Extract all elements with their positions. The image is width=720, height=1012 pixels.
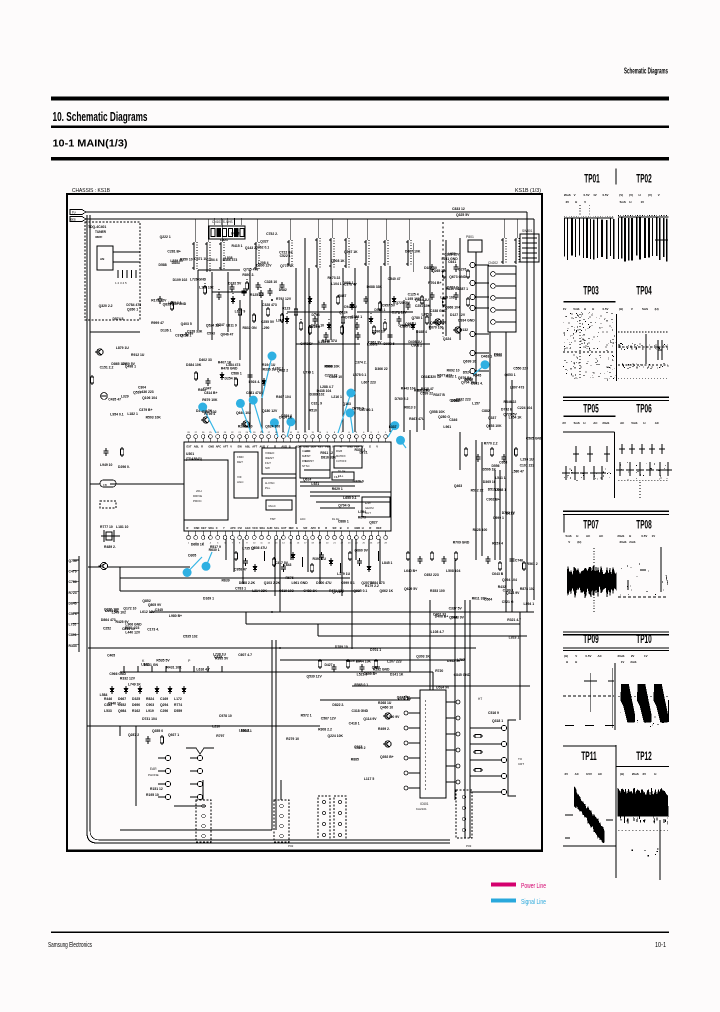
svg-text:H: H xyxy=(629,534,631,538)
capacitor C69 xyxy=(217,292,222,300)
svg-text:C176 12V: C176 12V xyxy=(392,310,408,314)
svg-text:FMD: FMD xyxy=(237,455,244,459)
svg-text:C354 4: C354 4 xyxy=(207,258,218,262)
svg-text:Q614: Q614 xyxy=(303,478,311,482)
svg-text:L239 GND: L239 GND xyxy=(170,302,187,306)
svg-text:H: H xyxy=(576,534,578,538)
svg-text:R673 22: R673 22 xyxy=(327,276,340,280)
svg-text:C482 1K: C482 1K xyxy=(303,589,317,593)
svg-text:DL 1H: DL 1H xyxy=(338,469,345,473)
wire signal vertical xyxy=(308,268,310,430)
label scope settings xyxy=(619,193,659,197)
test point leader wire xyxy=(338,393,351,433)
svg-text:VCO: VCO xyxy=(252,526,258,530)
svg-text:C409 10: C409 10 xyxy=(329,375,342,379)
svg-text:C565 GND: C565 GND xyxy=(526,436,543,440)
svg-text:R431 10K: R431 10K xyxy=(166,666,182,670)
svg-text:C786: C786 xyxy=(69,580,77,584)
IC internal rule b xyxy=(316,501,391,503)
label scope settings xyxy=(563,307,609,311)
waveform TP02 pulse train xyxy=(618,217,669,262)
svg-text:R321 4.7: R321 4.7 xyxy=(507,618,521,622)
svg-text:C978 10: C978 10 xyxy=(219,714,232,718)
IC U301 pin numbers top xyxy=(187,432,387,434)
svg-text:R308 2.2: R308 2.2 xyxy=(318,727,332,731)
svg-text:D515 2: D515 2 xyxy=(488,487,499,491)
svg-text:C255 5V: C255 5V xyxy=(261,320,275,324)
test point marker TP08 xyxy=(286,417,295,426)
svg-text:(V): (V) xyxy=(619,193,623,197)
waveform TP05 corner trace xyxy=(563,432,615,498)
svg-text:PHONE: PHONE xyxy=(148,773,159,777)
wire bias xyxy=(110,483,184,485)
svg-text:TP07: TP07 xyxy=(583,518,599,532)
IC internal block RGB xyxy=(334,446,362,468)
test point leader wire xyxy=(401,440,407,448)
svg-text:R467 104: R467 104 xyxy=(276,395,291,399)
svg-text:H: H xyxy=(575,660,577,664)
rule under TP12 xyxy=(617,765,669,767)
coil L110 xyxy=(501,238,506,264)
svg-text:D132: D132 xyxy=(460,328,468,332)
capacitor C26 xyxy=(243,558,248,566)
svg-text:Q318 1: Q318 1 xyxy=(492,719,503,723)
wire tall V3 xyxy=(409,430,411,672)
svg-text:Q327: Q327 xyxy=(260,239,268,243)
capacitor C35 xyxy=(357,558,362,566)
svg-text:R489 2.: R489 2. xyxy=(104,545,116,549)
svg-text:L807 473: L807 473 xyxy=(510,386,524,390)
svg-text:Q935 0.1: Q935 0.1 xyxy=(353,589,367,593)
test point marker TP07 xyxy=(270,418,279,427)
svg-text:R911 12: R911 12 xyxy=(320,451,333,455)
rule below TP11 xyxy=(563,845,616,847)
svg-text:C374 2.: C374 2. xyxy=(355,361,367,365)
svg-text:D816 33K: D816 33K xyxy=(321,455,337,459)
svg-text:L181 10: L181 10 xyxy=(116,525,129,529)
svg-text:AGC: AGC xyxy=(245,526,251,530)
svg-text:TP12: TP12 xyxy=(636,749,652,763)
svg-text:PROC: PROC xyxy=(193,499,203,503)
svg-text:P801: P801 xyxy=(466,235,474,239)
wire sw ticks xyxy=(124,666,222,672)
svg-text:R846 22: R846 22 xyxy=(504,400,517,404)
svg-text:V: V xyxy=(631,307,633,311)
resistor R71 xyxy=(245,281,248,291)
wire IC pin down xyxy=(307,539,309,572)
svg-text:Q988 1: Q988 1 xyxy=(342,281,353,285)
capacitor C5 xyxy=(280,282,285,290)
wire signal vertical xyxy=(380,266,382,340)
ground loop wire inner xyxy=(90,215,450,840)
svg-text:AN: AN xyxy=(100,257,104,261)
resistor R58 xyxy=(378,301,381,311)
transistor Q601 xyxy=(383,713,391,719)
capacitor C23 xyxy=(248,372,253,380)
transistor Q401 xyxy=(433,319,441,325)
transistor Q303 xyxy=(98,562,107,569)
svg-text:SDA: SDA xyxy=(311,445,317,449)
svg-text:C917: C917 xyxy=(354,745,362,749)
test point marker TP06 xyxy=(249,396,258,405)
svg-text:R839: R839 xyxy=(221,578,229,582)
capacitor C85 xyxy=(332,664,337,672)
wire signal vertical xyxy=(511,380,513,612)
svg-text:SW801: SW801 xyxy=(522,229,533,233)
svg-text:2FH: 2FH xyxy=(196,489,202,493)
svg-text:D370 9: D370 9 xyxy=(353,480,364,484)
wire IC pin down xyxy=(341,539,343,596)
waveform TP05 pulses xyxy=(562,446,611,481)
svg-text:L117 5: L117 5 xyxy=(364,777,374,781)
svg-text:0.5V: 0.5V xyxy=(641,534,647,538)
diode D56 xyxy=(350,302,354,310)
svg-text:R425 9V: R425 9V xyxy=(115,620,129,624)
tuner TU101 dashed box xyxy=(85,222,140,320)
rule under TP09 a xyxy=(563,647,669,649)
svg-text:D574 5: D574 5 xyxy=(112,317,123,321)
svg-text:C321 9: C321 9 xyxy=(311,402,322,406)
svg-text:Q852: Q852 xyxy=(142,599,150,603)
resistor R74 xyxy=(299,321,302,331)
resistor R6 xyxy=(238,307,241,317)
capacitor C4 xyxy=(268,288,273,296)
transistor Q101 xyxy=(95,349,103,355)
svg-text:L104 1: L104 1 xyxy=(331,282,342,286)
coil L103 xyxy=(219,242,224,270)
wire signal vertical xyxy=(249,270,251,432)
wire coil feed xyxy=(221,219,223,242)
svg-text:V: V xyxy=(568,540,570,544)
wire signal vertical xyxy=(429,240,431,330)
waveform TP01 pulse train xyxy=(564,218,615,260)
wire stub xyxy=(378,551,380,561)
wire tall V5 xyxy=(469,600,471,838)
svg-text:Q163: Q163 xyxy=(343,402,351,406)
svg-text:C318 GND: C318 GND xyxy=(352,709,369,713)
svg-text:C151 2.2: C151 2.2 xyxy=(100,366,114,370)
svg-text:P02: P02 xyxy=(288,844,294,848)
svg-text:VIF: VIF xyxy=(237,475,242,479)
test point marker TP11 xyxy=(390,421,399,430)
svg-text:C607 4.7: C607 4.7 xyxy=(238,653,252,657)
svg-text:L580 47: L580 47 xyxy=(512,469,525,473)
svg-text:Q774 1K: Q774 1K xyxy=(280,264,294,268)
diode D47 xyxy=(182,686,186,694)
capacitor C81 xyxy=(397,316,402,324)
svg-text:R269 100: R269 100 xyxy=(238,424,253,428)
waveform TP04 video lines xyxy=(618,332,668,378)
IC IC601 left pins xyxy=(404,696,420,790)
wire link xyxy=(287,311,343,313)
svg-text:Q778 1: Q778 1 xyxy=(332,590,343,594)
svg-text:Q709 1: Q709 1 xyxy=(180,334,191,338)
svg-text:EW: EW xyxy=(238,445,243,449)
connector CN804 xyxy=(456,790,472,838)
wire link xyxy=(296,343,360,345)
fuse FB301 xyxy=(100,480,116,487)
svg-text:Q463: Q463 xyxy=(454,484,462,488)
wire vertical xyxy=(481,442,483,556)
svg-text:D188 4: D188 4 xyxy=(416,330,427,334)
svg-text:L961 GND: L961 GND xyxy=(291,581,308,585)
svg-text:D365 10: D365 10 xyxy=(483,480,496,484)
resistor R66 xyxy=(372,325,375,335)
wire tall V4 xyxy=(464,600,466,838)
svg-text:RGB: RGB xyxy=(336,449,342,453)
svg-text:C886 1: C886 1 xyxy=(338,520,349,524)
svg-text:L953: L953 xyxy=(494,354,502,358)
svg-text:D305: D305 xyxy=(188,553,196,557)
svg-text:C903: C903 xyxy=(146,703,154,707)
svg-text:(H): (H) xyxy=(577,540,581,544)
wire IC pin down xyxy=(290,539,292,560)
svg-text:Samsung Electronics: Samsung Electronics xyxy=(48,940,92,949)
svg-text:R676: R676 xyxy=(285,576,293,580)
svg-text:TP02: TP02 xyxy=(636,172,652,186)
svg-text:R478 GND: R478 GND xyxy=(221,367,238,371)
capacitor C78 xyxy=(355,322,360,330)
svg-text:Q827: Q827 xyxy=(369,520,377,524)
wire fuse to loop xyxy=(90,483,100,485)
label scope settings xyxy=(619,307,659,311)
svg-text:C957 5V: C957 5V xyxy=(382,303,396,307)
label scope settings xyxy=(620,540,636,544)
wire signal vertical xyxy=(211,272,213,340)
wire IC long down 1 xyxy=(279,539,281,612)
svg-text:L182 1: L182 1 xyxy=(127,412,138,416)
svg-text:R885: R885 xyxy=(351,758,359,762)
svg-text:C752 2.: C752 2. xyxy=(266,232,278,236)
svg-text:L689: L689 xyxy=(448,252,456,256)
svg-text:Q294: Q294 xyxy=(160,703,168,707)
waveform TP06 pulses xyxy=(616,444,672,500)
wire signal vertical xyxy=(197,270,199,330)
wire audio 2 xyxy=(120,577,350,579)
label scope settings xyxy=(621,660,637,664)
svg-text:R629 1: R629 1 xyxy=(332,487,343,491)
svg-text:H: H xyxy=(643,421,645,425)
svg-text:R407 1K: R407 1K xyxy=(218,360,232,364)
resistor R77 xyxy=(341,315,344,325)
label scope settings xyxy=(617,534,655,538)
svg-text:20uS: 20uS xyxy=(564,193,571,197)
svg-text:EAR: EAR xyxy=(150,767,157,771)
svg-text:D136 1: D136 1 xyxy=(161,329,172,333)
svg-text:R535 5V: R535 5V xyxy=(156,658,170,662)
header rule top xyxy=(51,97,669,101)
connector CN101 xyxy=(209,218,245,239)
svg-text:L521 9: L521 9 xyxy=(357,672,368,676)
svg-text:C573: C573 xyxy=(69,612,77,616)
svg-text:C902 B+: C902 B+ xyxy=(486,497,499,501)
node junction xyxy=(426,313,428,315)
svg-text:D674 0.1: D674 0.1 xyxy=(359,408,373,412)
connector CN202 xyxy=(488,266,516,332)
waveform TP02 dotted top xyxy=(618,215,669,217)
svg-text:TINT: TINT xyxy=(305,454,311,458)
svg-text:H: H xyxy=(566,660,568,664)
svg-text:TP06: TP06 xyxy=(636,402,652,416)
diode D76 xyxy=(327,322,331,330)
connector JACK601 xyxy=(158,748,214,800)
svg-text:ACC: ACC xyxy=(300,517,306,521)
resistor R305 xyxy=(120,447,123,457)
svg-text:5mS: 5mS xyxy=(620,200,626,204)
svg-text:C317 5V: C317 5V xyxy=(275,561,289,565)
svg-text:R828 100: R828 100 xyxy=(473,528,488,532)
svg-text:KS1B (1/3): KS1B (1/3) xyxy=(515,188,541,194)
svg-text:Q750: Q750 xyxy=(69,559,77,563)
svg-text:R532 22: R532 22 xyxy=(471,488,484,492)
IC internal block dline2 xyxy=(300,485,355,487)
IC internal hline xyxy=(304,469,330,471)
svg-text:L356 2: L356 2 xyxy=(367,343,378,347)
IC internal rule c xyxy=(320,507,355,509)
capacitor C75 xyxy=(313,316,318,324)
rule above TP05 a xyxy=(563,396,669,398)
svg-text:Q704 G: Q704 G xyxy=(338,503,350,507)
svg-text:Q337: Q337 xyxy=(488,416,496,420)
svg-text:V: V xyxy=(376,445,378,449)
IC internal text rows xyxy=(270,449,345,521)
svg-text:L584: L584 xyxy=(100,693,108,697)
node junction xyxy=(314,313,316,315)
svg-text:R670 100: R670 100 xyxy=(429,326,444,330)
svg-text:20uS: 20uS xyxy=(602,421,609,425)
svg-text:TP03: TP03 xyxy=(583,284,599,298)
svg-text:Q673 GND: Q673 GND xyxy=(449,275,466,279)
svg-text:2V: 2V xyxy=(631,654,635,658)
transistor Q301 xyxy=(201,417,209,423)
svg-text:2V: 2V xyxy=(566,200,570,204)
wire tall V2 xyxy=(275,640,277,830)
svg-text:Q729 5V: Q729 5V xyxy=(503,413,517,417)
capacitor C15 xyxy=(430,292,435,300)
node junction xyxy=(204,283,206,285)
capacitor C72 xyxy=(259,290,264,298)
svg-text:R517 9: R517 9 xyxy=(210,545,221,549)
wire left drop xyxy=(119,567,121,591)
node junction xyxy=(398,313,400,315)
svg-text:1V: 1V xyxy=(652,534,656,538)
svg-text:C946 9V: C946 9V xyxy=(344,305,358,309)
label scope settings xyxy=(564,193,609,197)
test point marker TP02 xyxy=(183,568,192,577)
node junction xyxy=(232,293,234,295)
wire signal vertical xyxy=(227,272,229,332)
svg-text:C540 47: C540 47 xyxy=(388,277,401,281)
node junction xyxy=(271,299,273,301)
svg-text:Q984: Q984 xyxy=(118,709,126,713)
svg-text:(H): (H) xyxy=(564,654,568,658)
label scope settings xyxy=(618,654,648,658)
svg-text:2mS: 2mS xyxy=(630,660,636,664)
diode D46 xyxy=(168,686,172,694)
wire audio 3 xyxy=(120,590,360,592)
svg-text:L894 1: L894 1 xyxy=(524,602,535,606)
test point marker TP09 xyxy=(346,389,355,398)
svg-text:D731 104: D731 104 xyxy=(142,717,157,721)
coil L108 xyxy=(364,240,369,266)
wire coil feed xyxy=(317,219,319,238)
wire bl drop2 xyxy=(135,726,137,760)
svg-text:SCL: SCL xyxy=(274,526,280,530)
svg-text:KILL: KILL xyxy=(338,474,344,478)
svg-text:L738 1U: L738 1U xyxy=(213,653,227,657)
waveform TP08 sparse xyxy=(618,547,668,597)
svg-text:V: V xyxy=(658,193,660,197)
svg-text:C999 1: C999 1 xyxy=(493,516,504,520)
svg-text:D688 33K: D688 33K xyxy=(367,285,383,289)
IC U301 top pin names xyxy=(187,445,379,449)
svg-text:D903 5: D903 5 xyxy=(384,342,395,346)
svg-text:CVI: CVI xyxy=(238,526,243,530)
svg-text:R: R xyxy=(318,526,320,530)
header rule bottom xyxy=(51,157,669,161)
IC601 internal dash xyxy=(424,700,426,790)
wire IC pin down xyxy=(355,539,357,560)
svg-text:R279 10: R279 10 xyxy=(286,737,299,741)
resistor R62 xyxy=(308,325,311,335)
svg-text:Q653 10K: Q653 10K xyxy=(486,424,502,428)
svg-text:C619 102: C619 102 xyxy=(279,589,294,593)
capacitor C65 xyxy=(356,332,361,340)
svg-text:D402 33: D402 33 xyxy=(433,612,446,616)
svg-text:Q180 12V: Q180 12V xyxy=(262,409,278,413)
resistor R61 xyxy=(420,295,423,305)
svg-text:TDQ-4C401: TDQ-4C401 xyxy=(88,225,106,229)
svg-text:Q403 5: Q403 5 xyxy=(181,322,192,326)
svg-text:L290: L290 xyxy=(262,326,270,330)
header rule middle xyxy=(51,126,669,129)
svg-text:DEF: DEF xyxy=(289,526,295,530)
wire bus xyxy=(120,829,272,831)
svg-text:D296 0.: D296 0. xyxy=(118,465,130,469)
connector CN803 xyxy=(318,796,330,840)
svg-text:Q232 47: Q232 47 xyxy=(397,696,410,700)
resistor R48 xyxy=(473,734,483,737)
svg-text:C783 1: C783 1 xyxy=(235,587,246,591)
svg-text:TUNER: TUNER xyxy=(95,230,107,234)
wire left col h xyxy=(90,331,140,333)
label scope settings xyxy=(620,421,660,425)
svg-text:R723: R723 xyxy=(69,591,77,595)
svg-text:C: C xyxy=(347,526,349,530)
svg-text:Q320 2.2: Q320 2.2 xyxy=(99,304,113,308)
svg-text:Q460 10: Q460 10 xyxy=(380,705,393,709)
wire IC long down 2 xyxy=(351,539,353,648)
svg-text:C553: C553 xyxy=(207,331,215,335)
wire signal vertical xyxy=(342,268,344,432)
diode D73 xyxy=(285,316,289,324)
svg-text:Q653 1: Q653 1 xyxy=(504,373,515,377)
label scope settings xyxy=(568,540,581,544)
svg-text:D668 1K: D668 1K xyxy=(191,542,205,546)
svg-text:R347 B: R347 B xyxy=(433,393,445,397)
svg-text:C252: C252 xyxy=(103,626,111,630)
svg-text:Q303 1K: Q303 1K xyxy=(416,655,430,659)
svg-text:D427: D427 xyxy=(324,663,332,667)
svg-text:H: H xyxy=(575,200,577,204)
test point leader wire xyxy=(388,426,395,437)
svg-text:C296: C296 xyxy=(160,709,168,713)
svg-text:L991 1: L991 1 xyxy=(421,312,432,316)
svg-text:R292 GND: R292 GND xyxy=(373,668,390,672)
svg-text:D846: D846 xyxy=(69,601,77,605)
svg-text:VIDEO: VIDEO xyxy=(265,451,275,455)
label scope settings xyxy=(620,772,656,776)
